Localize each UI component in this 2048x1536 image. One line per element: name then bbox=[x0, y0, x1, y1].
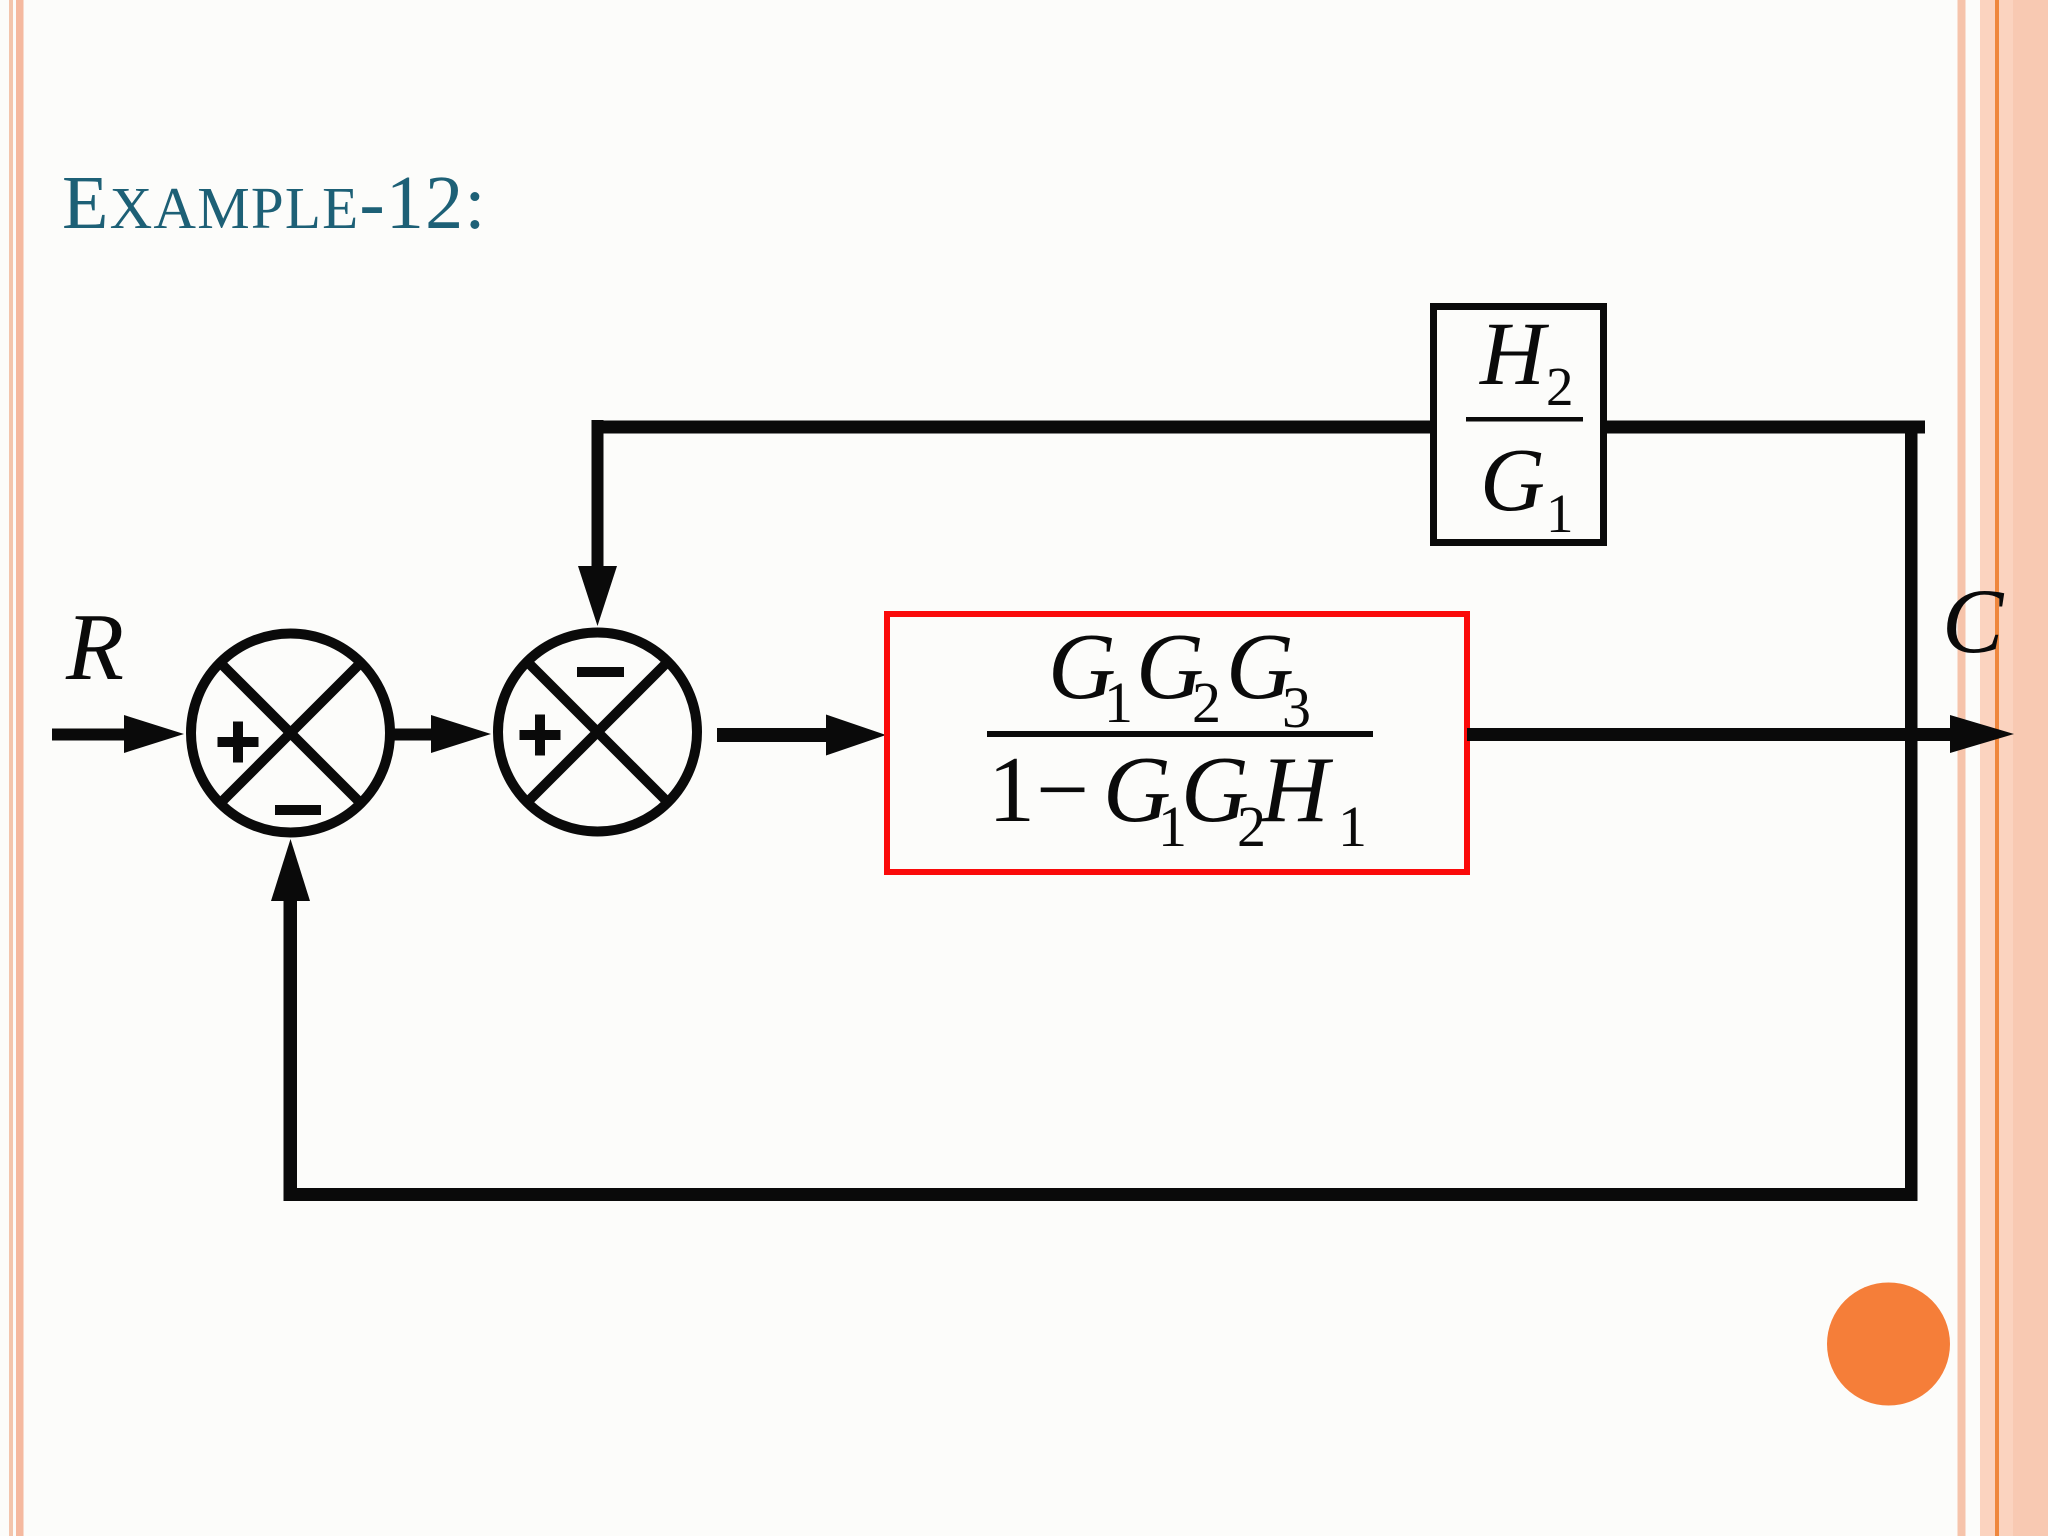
svg-text:1: 1 bbox=[1104, 670, 1133, 735]
summing junction S2 bbox=[498, 633, 697, 832]
svg-text:2: 2 bbox=[1546, 356, 1574, 417]
svg-text:H: H bbox=[1479, 305, 1550, 404]
S1 plus sign bbox=[218, 722, 259, 763]
svg-text:H: H bbox=[1259, 738, 1334, 842]
wire right vertical feedback line bbox=[1905, 421, 1918, 1202]
summing junction S1 bbox=[191, 634, 390, 833]
value label numerator G1G2G3 bbox=[1048, 615, 1311, 740]
svg-text:3: 3 bbox=[1282, 675, 1311, 740]
svg-text:2: 2 bbox=[1192, 670, 1221, 735]
wire input arrow R to S1 bbox=[52, 715, 184, 753]
value label denominator 1-G1G2H1 bbox=[988, 738, 1367, 859]
S2 minus sign bbox=[577, 667, 624, 677]
wire bottom feedback line bbox=[284, 1188, 1911, 1201]
svg-text:R: R bbox=[65, 594, 124, 700]
left border thin stripe bbox=[9, 0, 13, 1536]
wire S2 to block G bbox=[717, 715, 886, 756]
svg-text:1: 1 bbox=[1546, 483, 1574, 544]
svg-text:G: G bbox=[1480, 431, 1545, 530]
H2/G1 label bbox=[1466, 305, 1583, 544]
S1 minus sign bbox=[275, 805, 321, 815]
wire top feedback: corner drop into S2 bbox=[578, 420, 617, 626]
right border thin stripe bbox=[1958, 0, 1966, 1536]
output arrowhead bbox=[1950, 715, 2014, 753]
svg-text:1: 1 bbox=[988, 738, 1035, 842]
svg-text:C: C bbox=[1942, 570, 2005, 672]
wire top feedback horizontal right segment bbox=[1607, 421, 1925, 434]
svg-text:1: 1 bbox=[1338, 794, 1367, 859]
decorative orange circle bottom right bbox=[1827, 1283, 1950, 1406]
wire S1 to S2 bbox=[394, 715, 491, 753]
block G1G2G3/(1-G1G2H1) red box bbox=[887, 614, 1467, 872]
right border darker band bbox=[2013, 0, 2048, 1536]
left border thick stripe bbox=[16, 0, 24, 1536]
block H2/G1 bbox=[1434, 307, 1604, 543]
right border wide band bbox=[1980, 0, 2048, 1536]
right border orange line bbox=[1995, 0, 1999, 1536]
fraction bar bbox=[987, 731, 1373, 737]
svg-text:−: − bbox=[1036, 738, 1089, 842]
S2 plus sign bbox=[520, 715, 561, 756]
wire block G to output C bbox=[1467, 728, 1952, 741]
wire bottom feedback: vertical up into S1 bbox=[271, 839, 310, 1201]
wire top feedback horizontal left segment bbox=[592, 421, 1431, 434]
